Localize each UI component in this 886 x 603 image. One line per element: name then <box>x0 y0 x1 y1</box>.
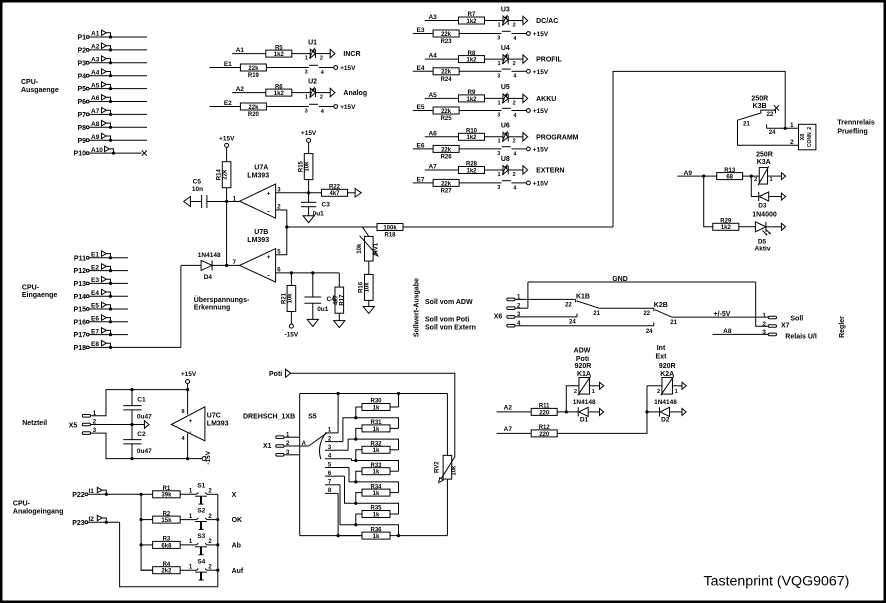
connector X8 CONN_2 <box>799 124 816 150</box>
wire R12 to K2A <box>558 386 648 434</box>
svg-text:2: 2 <box>513 172 516 178</box>
svg-text:P11: P11 <box>74 255 86 262</box>
svg-text:P12: P12 <box>74 268 87 275</box>
resistor R11 <box>531 408 557 415</box>
resistor R2 <box>153 516 181 523</box>
terminal +15V of U5 <box>527 109 531 113</box>
svg-text:Relais U/I: Relais U/I <box>785 334 817 341</box>
svg-text:Auf: Auf <box>232 568 244 575</box>
svg-text:D2: D2 <box>661 416 670 423</box>
svg-text:ADW: ADW <box>574 348 591 355</box>
svg-text:3: 3 <box>497 74 500 80</box>
svg-text:R32: R32 <box>370 442 382 448</box>
wire R5 to U1 LED <box>292 53 311 55</box>
svg-text:1k2: 1k2 <box>466 135 477 141</box>
svg-text:21: 21 <box>593 311 600 317</box>
resistor R14 <box>222 162 231 188</box>
svg-text:22k: 22k <box>441 181 452 187</box>
svg-text:Soll vom Poti: Soll vom Poti <box>425 316 469 323</box>
resistor R19 <box>240 64 266 71</box>
svg-text:R11: R11 <box>539 404 550 410</box>
svg-text:E7: E7 <box>91 328 99 335</box>
svg-text:A: A <box>302 441 307 447</box>
svg-text:4: 4 <box>321 70 325 76</box>
svg-text:Überspannungs-: Überspannungs- <box>194 295 250 304</box>
wire junction to D3 <box>751 176 758 196</box>
wire U7A pin 3 <box>276 192 322 194</box>
svg-text:E1: E1 <box>91 252 99 259</box>
svg-text:A1: A1 <box>91 31 100 38</box>
svg-text:R4: R4 <box>163 562 171 568</box>
wire U7C pin 8 power <box>187 390 189 415</box>
svg-text:1: 1 <box>305 95 308 101</box>
wire R26 to switch pin 3 <box>459 148 501 150</box>
ground below R16 <box>363 307 374 314</box>
wire R10 to U6 LED <box>485 136 504 138</box>
wire junction to D2 <box>647 411 660 413</box>
svg-text:1: 1 <box>498 139 501 145</box>
svg-text:10k: 10k <box>451 465 457 476</box>
resistor R7 <box>459 17 485 24</box>
svg-text:CPU-: CPU- <box>22 285 40 292</box>
svg-text:R17: R17 <box>339 294 345 306</box>
svg-text:Ausgaenge: Ausgaenge <box>21 87 59 94</box>
svg-text:3: 3 <box>497 185 500 191</box>
resistor R26 <box>433 145 459 152</box>
terminal -15V U7C <box>202 457 206 461</box>
svg-text:2: 2 <box>513 61 516 67</box>
svg-text:CPU-: CPU- <box>13 500 31 507</box>
svg-text:22k: 22k <box>441 32 452 38</box>
svg-text:1: 1 <box>305 56 308 62</box>
svg-text:+15V: +15V <box>219 136 235 143</box>
svg-text:U7C: U7C <box>207 413 221 420</box>
wire LED to output arrow <box>508 20 523 22</box>
wire S4 to right rail <box>207 569 218 571</box>
svg-text:P13: P13 <box>74 281 87 288</box>
wire U7B pin 6 <box>276 272 340 274</box>
svg-text:22: 22 <box>767 112 774 118</box>
terminal +15V of U8 <box>527 181 531 185</box>
svg-text:4: 4 <box>513 113 517 119</box>
wire R19 to switch pin 3 <box>267 67 309 69</box>
resistor R17 <box>335 287 344 313</box>
svg-text:P22: P22 <box>72 492 85 499</box>
svg-text:DREHSCH_1XB: DREHSCH_1XB <box>243 414 295 421</box>
wire K3A to arrow <box>768 175 782 177</box>
svg-text:S4: S4 <box>197 558 205 565</box>
wire R30 leads <box>390 406 399 408</box>
svg-text:100k: 100k <box>383 225 397 231</box>
wire X6 pin4 to K2B contact 24 <box>515 325 654 327</box>
wire switch pin 4 to +15V <box>512 33 527 35</box>
wire R14 to junction <box>226 188 228 202</box>
wire switch pin 4 to +15V <box>319 67 334 69</box>
wire switch pin 4 to +15V <box>512 148 527 150</box>
wire pin6 to R21 <box>290 273 292 286</box>
svg-text:250R: 250R <box>756 152 773 159</box>
svg-text:250R: 250R <box>751 96 768 103</box>
wire R6 to U2 LED <box>292 92 311 94</box>
wire K2A to arrow <box>673 385 683 387</box>
svg-text:R19: R19 <box>248 73 260 79</box>
svg-text:CPU-: CPU- <box>21 79 39 86</box>
wire X5 pin2 to arrow <box>91 424 145 426</box>
svg-text:P5: P5 <box>77 86 86 93</box>
terminal +15V of U4 <box>527 69 531 73</box>
output arrow AKKU <box>523 94 528 102</box>
wire R29 to D5 <box>739 226 756 228</box>
svg-text:1: 1 <box>189 514 193 520</box>
svg-text:R22: R22 <box>329 185 341 191</box>
opto LED U6 pins 1 2 <box>503 132 508 141</box>
arrow K3A output <box>781 173 785 180</box>
arrow D2 output <box>682 408 686 415</box>
svg-text:P15: P15 <box>74 307 87 314</box>
svg-text:CONN_2: CONN_2 <box>807 127 813 148</box>
svg-text:Aktiv: Aktiv <box>755 245 771 252</box>
wire R1 to switch S1 <box>180 493 196 495</box>
wire S5 left rail <box>299 394 301 536</box>
svg-text:U7B: U7B <box>254 229 268 236</box>
svg-text:E6: E6 <box>91 316 99 323</box>
resistor R30 <box>362 404 390 411</box>
wire K3B pin 21 to X8 pin 2 <box>738 120 799 145</box>
svg-text:R9: R9 <box>468 90 476 96</box>
svg-text:AKKU: AKKU <box>536 96 556 103</box>
svg-text:P10: P10 <box>74 151 87 158</box>
wire R9 to U5 LED <box>485 97 504 99</box>
wire comparator net to RV1 and R18 <box>287 226 377 228</box>
svg-text:1: 1 <box>189 565 193 571</box>
svg-text:10n: 10n <box>192 186 203 193</box>
opto transistor contact U1 pins 3 4 <box>309 64 318 66</box>
wire R21 to -15V <box>290 312 292 325</box>
svg-text:A3: A3 <box>428 14 437 21</box>
resistor R25 <box>433 107 459 114</box>
wire S2 to right rail <box>207 519 218 521</box>
svg-text:Poti: Poti <box>576 356 589 363</box>
wire D5 to arrow <box>766 226 782 228</box>
wire K1A to A2 junction <box>566 386 579 412</box>
svg-text:24: 24 <box>769 130 776 136</box>
svg-text:Soll vom ADW: Soll vom ADW <box>425 299 473 306</box>
resistor R32 <box>362 446 390 453</box>
svg-text:15k: 15k <box>161 518 172 524</box>
wire to resistor R4 <box>141 569 153 571</box>
svg-text:2: 2 <box>762 321 766 328</box>
svg-text:22k: 22k <box>441 147 452 153</box>
resistor R24 <box>433 68 459 75</box>
svg-text:Ext: Ext <box>656 353 668 360</box>
wire S5 top rail <box>300 393 448 395</box>
svg-text:R29: R29 <box>720 219 732 225</box>
wire U7A pin 2 to U7B pin 5 <box>276 210 287 255</box>
svg-text:A2: A2 <box>91 44 100 51</box>
svg-text:Ab: Ab <box>232 543 241 550</box>
svg-text:10k: 10k <box>357 243 363 254</box>
resistor R12 <box>531 430 557 437</box>
svg-text:Eingaenge: Eingaenge <box>22 292 58 299</box>
svg-text:P9: P9 <box>77 138 86 145</box>
svg-text:+15V: +15V <box>340 65 356 72</box>
opto transistor contact U3 pins 3 4 <box>502 30 511 32</box>
svg-text:U1: U1 <box>308 39 317 46</box>
svg-text:1: 1 <box>498 172 501 178</box>
svg-text:R33: R33 <box>370 463 382 469</box>
svg-text:1k: 1k <box>373 448 380 454</box>
svg-text:220: 220 <box>539 410 550 416</box>
wire K1A to arrow <box>590 385 600 387</box>
svg-text:Trennrelais: Trennrelais <box>837 120 874 127</box>
svg-text:A5: A5 <box>91 82 100 89</box>
svg-text:6k8: 6k8 <box>161 543 172 549</box>
svg-text:1: 1 <box>770 177 773 183</box>
svg-text:A6: A6 <box>428 130 437 137</box>
svg-text:LM393: LM393 <box>207 421 229 428</box>
svg-text:4: 4 <box>513 36 517 42</box>
svg-text:D4: D4 <box>204 274 213 281</box>
svg-text:E4: E4 <box>417 65 425 72</box>
svg-text:2: 2 <box>208 565 212 571</box>
wire K1B to K2B <box>599 307 654 309</box>
svg-text:4k7: 4k7 <box>329 191 340 197</box>
svg-text:2: 2 <box>320 95 323 101</box>
wire switch pin 4 to +15V <box>512 182 527 184</box>
svg-text:2: 2 <box>574 389 577 395</box>
svg-text:4: 4 <box>513 74 517 80</box>
resistor R16 <box>365 274 374 300</box>
capacitor C3 0u1 <box>301 201 316 203</box>
wire R23 to switch pin 3 <box>459 33 501 35</box>
svg-text:D1: D1 <box>580 416 589 423</box>
svg-text:1k2: 1k2 <box>466 58 477 64</box>
svg-text:X6: X6 <box>494 313 503 320</box>
wire R31 leads <box>390 427 399 429</box>
svg-text:R23: R23 <box>441 39 453 45</box>
svg-text:24: 24 <box>646 329 653 335</box>
ground below C3 <box>303 216 314 223</box>
wire LED to output arrow <box>508 169 523 171</box>
svg-text:P23: P23 <box>72 520 85 527</box>
svg-text:A2: A2 <box>236 86 245 93</box>
svg-text:U5: U5 <box>501 84 510 91</box>
arrow C5 input <box>184 197 191 207</box>
resistor R4 <box>153 567 181 574</box>
ground below R17 <box>334 321 345 328</box>
resistor R10 <box>459 133 485 140</box>
svg-text:3: 3 <box>305 109 308 115</box>
svg-text:Int: Int <box>657 345 666 352</box>
svg-text:R25: R25 <box>441 116 453 122</box>
potentiometer RV2 10k <box>443 455 452 479</box>
svg-text:R2: R2 <box>163 511 171 517</box>
svg-text:2: 2 <box>208 489 212 495</box>
wire R20 to switch pin 3 <box>267 106 309 108</box>
wire X6 pin3 to K1B contact 24 <box>515 316 577 318</box>
wire S3 to right rail <box>207 544 218 546</box>
svg-text:S5: S5 <box>308 414 317 421</box>
svg-text:22k: 22k <box>248 66 259 72</box>
svg-text:+15V: +15V <box>533 69 549 76</box>
svg-text:LM393: LM393 <box>247 173 269 180</box>
wire R4 to switch S4 <box>180 569 196 571</box>
svg-text:8: 8 <box>181 409 184 415</box>
svg-text:1: 1 <box>189 489 193 495</box>
svg-text:+/-5V: +/-5V <box>714 311 731 318</box>
opto transistor contact U8 pins 3 4 <box>502 180 511 182</box>
svg-text:R18: R18 <box>384 232 396 238</box>
wire P18 net to D4 <box>181 264 201 266</box>
wire LED to output arrow <box>508 58 523 60</box>
svg-text:1k: 1k <box>373 405 380 411</box>
wire K2A left lead <box>647 385 662 387</box>
svg-text:+15V: +15V <box>533 180 549 187</box>
wire D4 to U7B pin 7 <box>212 264 240 266</box>
wire right rail S1-S4 <box>217 494 219 586</box>
svg-text:R24: R24 <box>441 77 453 83</box>
resistor R36 <box>362 532 390 539</box>
arrow D3 output <box>781 193 785 200</box>
svg-text:C1: C1 <box>137 396 146 403</box>
wire R7 to U3 LED <box>485 20 504 22</box>
svg-text:E4: E4 <box>91 290 99 297</box>
svg-text:E6: E6 <box>417 142 425 149</box>
wire K2B to X7 pin1 +/-5V <box>672 316 769 318</box>
svg-text:P2: P2 <box>77 48 86 55</box>
svg-text:-: - <box>267 273 270 280</box>
ground below C4 <box>307 319 318 326</box>
wire R25 to switch pin 3 <box>459 110 501 112</box>
wire R32 leads <box>390 449 399 451</box>
wire R27 to switch pin 3 <box>459 182 501 184</box>
svg-text:A10: A10 <box>91 147 103 154</box>
svg-text:Analog: Analog <box>343 90 367 97</box>
svg-text:E1: E1 <box>224 61 232 68</box>
wire R35 leads <box>390 513 399 515</box>
arrow K2A output <box>682 382 686 389</box>
svg-text:2: 2 <box>320 56 323 62</box>
svg-text:RV2: RV2 <box>434 461 440 473</box>
LED D5 Aktiv <box>755 222 766 232</box>
svg-text:3: 3 <box>305 70 308 76</box>
svg-text:E3: E3 <box>417 27 425 34</box>
terminal +15V of U1 <box>334 66 338 70</box>
svg-text:Sollwert-Ausgabe: Sollwert-Ausgabe <box>414 278 421 337</box>
svg-text:10k: 10k <box>287 293 293 304</box>
opto LED U4 pins 1 2 <box>503 55 508 64</box>
svg-text:+15V: +15V <box>181 371 197 378</box>
wire arrow to C5 <box>190 201 201 203</box>
svg-text:U8: U8 <box>501 156 510 163</box>
svg-text:I1: I1 <box>89 488 95 495</box>
svg-text:1: 1 <box>762 312 766 319</box>
svg-text:S1: S1 <box>197 482 205 489</box>
wire X1 pin3 to bottom rail <box>284 454 300 456</box>
wire left rail R1-R4 <box>141 494 153 570</box>
resistor R28 <box>459 167 485 174</box>
output arrow EXTERN <box>523 166 528 174</box>
wire P18 to D4 <box>180 265 182 347</box>
svg-text:39k: 39k <box>161 493 172 499</box>
svg-text:A7: A7 <box>504 426 513 433</box>
resistor R9 <box>459 95 485 102</box>
svg-text:R20: R20 <box>248 112 260 118</box>
wire switch pin 4 to +15V <box>319 106 334 108</box>
svg-text:P14: P14 <box>74 294 87 301</box>
svg-text:LM393: LM393 <box>247 237 269 244</box>
svg-text:1N4000: 1N4000 <box>752 212 777 219</box>
svg-text:22: 22 <box>565 302 572 308</box>
svg-text:24: 24 <box>569 319 576 325</box>
wire A9 junction to R29 <box>704 176 713 227</box>
wire LED to output arrow <box>508 136 523 138</box>
wire LED to output arrow <box>316 92 331 94</box>
svg-text:3: 3 <box>497 113 500 119</box>
svg-text:R8: R8 <box>468 51 476 57</box>
wire to resistor R1 <box>141 493 153 495</box>
svg-text:U7A: U7A <box>254 164 268 171</box>
svg-text:21: 21 <box>743 121 750 127</box>
wire top rail to RV2 <box>446 394 448 456</box>
capacitor C4 0u1 <box>304 296 321 298</box>
svg-text:Soll: Soll <box>790 316 803 323</box>
terminal +15V of U3 <box>527 32 531 36</box>
svg-text:E2: E2 <box>224 100 232 107</box>
output arrow Analog <box>330 88 335 96</box>
wire Poti to RV2 wiper <box>291 373 455 457</box>
svg-text:P8: P8 <box>77 125 86 132</box>
svg-text:P7: P7 <box>77 112 86 119</box>
resistor R3 <box>153 541 181 548</box>
svg-text:1k2: 1k2 <box>466 168 477 174</box>
resistor R33 <box>362 468 390 475</box>
wire R18 to top right <box>403 226 613 228</box>
svg-text:C2: C2 <box>137 431 146 438</box>
resistor R27 <box>433 179 459 186</box>
svg-text:10k: 10k <box>365 282 371 293</box>
wire R34 leads <box>390 492 399 494</box>
svg-text:4: 4 <box>513 151 517 157</box>
svg-text:R36: R36 <box>370 527 382 533</box>
svg-text:0u47: 0u47 <box>137 414 152 421</box>
svg-text:Poti: Poti <box>269 371 282 378</box>
svg-text:PROFIL: PROFIL <box>536 57 562 64</box>
svg-text:1k: 1k <box>373 470 380 476</box>
svg-text:U2: U2 <box>308 78 317 85</box>
svg-text:A4: A4 <box>428 53 437 60</box>
svg-text:1: 1 <box>790 122 794 129</box>
wire R13 to K3A <box>743 175 760 177</box>
svg-text:+15V: +15V <box>301 130 317 137</box>
svg-text:-: - <box>267 209 270 216</box>
svg-text:A4: A4 <box>91 69 100 76</box>
opto transistor contact U6 pins 3 4 <box>502 146 511 148</box>
svg-text:2k2: 2k2 <box>161 569 172 575</box>
svg-text:PROGRAMM: PROGRAMM <box>536 134 579 141</box>
arrow R22 output <box>355 189 361 198</box>
svg-text:X5: X5 <box>69 422 78 429</box>
svg-text:U6: U6 <box>501 123 510 130</box>
svg-text:P3: P3 <box>77 60 86 67</box>
svg-text:R3: R3 <box>163 537 171 543</box>
wire X5 pin3 to -15V rail <box>91 433 203 459</box>
svg-text:1k: 1k <box>373 427 380 433</box>
svg-text:E5: E5 <box>91 303 99 310</box>
svg-text:RV1: RV1 <box>373 242 379 254</box>
connector X7 <box>768 316 776 319</box>
svg-text:Pruefling: Pruefling <box>837 129 867 136</box>
